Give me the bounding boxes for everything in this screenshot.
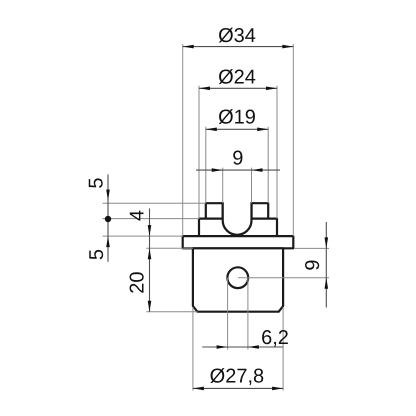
part: body with chamfer xyxy=(193,248,283,311)
dimension line 6,2 xyxy=(202,346,283,348)
extension line hole left xyxy=(227,278,229,350)
dimension line 5-5 column xyxy=(107,174,109,261)
arrow 20 lower xyxy=(148,301,152,312)
svg-text:5: 5 xyxy=(86,177,108,188)
arrow 5 lower xyxy=(106,236,110,247)
extension line Ø27,8 right xyxy=(282,307,284,391)
arrow Ø19 right xyxy=(257,128,268,132)
part: hole xyxy=(227,267,248,288)
arrow Ø27,8 left xyxy=(193,387,204,391)
extension line 9 slot left xyxy=(222,168,224,204)
leader flange bottom left xyxy=(146,247,193,249)
extension line hole right xyxy=(247,278,249,350)
svg-text:Ø24: Ø24 xyxy=(218,66,256,88)
dimension line Ø34 xyxy=(183,46,294,48)
dimension line 9 right column xyxy=(325,222,327,308)
arrow 20 upper (shared with 4) xyxy=(148,248,152,259)
arrow Ø34 left xyxy=(183,45,194,49)
extension line Ø34 right xyxy=(292,44,294,236)
svg-text:9: 9 xyxy=(302,259,324,270)
dimension line 4-20 column xyxy=(149,208,151,311)
leader flange top xyxy=(103,235,183,237)
leader post top xyxy=(103,202,206,204)
svg-text:9: 9 xyxy=(232,148,243,170)
svg-text:5: 5 xyxy=(86,249,108,260)
svg-text:20: 20 xyxy=(126,271,148,293)
dimension line Ø19 xyxy=(206,128,268,130)
dimension line Ø27,8 xyxy=(193,387,283,389)
part: shoulder xyxy=(199,219,277,237)
arrow 4 upper xyxy=(148,225,152,236)
arrow Ø24 left xyxy=(199,87,210,91)
arrow 5 upper xyxy=(106,190,110,201)
arrow 6,2 right xyxy=(248,345,259,349)
svg-text:6,2: 6,2 xyxy=(261,327,289,349)
arrow Ø24 right xyxy=(266,87,277,91)
leader body bottom left xyxy=(146,311,197,313)
extension line Ø27,8 left xyxy=(192,307,194,391)
extension line Ø19 left xyxy=(205,127,207,203)
dot chain point xyxy=(105,216,111,222)
extension line Ø19 right xyxy=(267,127,269,203)
arrow 9 top left xyxy=(212,168,223,172)
svg-text:Ø19: Ø19 xyxy=(218,106,256,128)
arrow Ø34 right xyxy=(282,45,293,49)
part: U slot xyxy=(223,202,252,235)
extension line Ø24 left xyxy=(198,86,200,219)
svg-text:Ø34: Ø34 xyxy=(218,25,256,47)
extension line Ø24 right xyxy=(276,86,278,219)
part: right post xyxy=(252,203,269,218)
dimension line 9 top xyxy=(196,169,280,171)
part: flange xyxy=(183,236,294,248)
svg-text:Ø27,8: Ø27,8 xyxy=(210,365,264,387)
arrow Ø19 left xyxy=(206,128,217,132)
leader shoulder top xyxy=(103,218,200,220)
part: left post xyxy=(206,203,223,218)
arrow 6,2 left xyxy=(217,345,228,349)
extension line 9 slot right xyxy=(251,168,253,204)
leader flange bottom right xyxy=(294,247,329,249)
leader hole center right xyxy=(238,277,329,279)
arrow 9 right lower xyxy=(325,278,329,289)
svg-text:4: 4 xyxy=(127,210,149,221)
arrow 9 right upper xyxy=(325,237,329,248)
arrow Ø27,8 right xyxy=(272,387,283,391)
arrow 9 top right xyxy=(252,168,263,172)
dimension line Ø24 xyxy=(199,87,277,89)
extension line Ø34 left xyxy=(182,44,184,236)
